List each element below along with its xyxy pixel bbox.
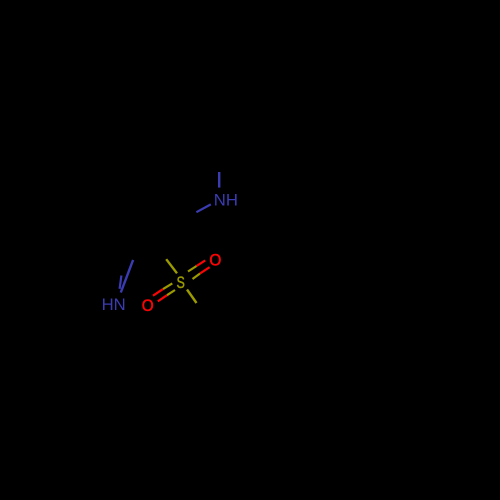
svg-text:O: O	[209, 251, 221, 270]
wire: S=O upper-right double bond line A red half	[197, 260, 206, 266]
wire: bond S-CH3 lower-right olive	[187, 290, 197, 304]
wire: S=O upper-right double bond line A olive half	[188, 266, 197, 272]
svg-text:NH: NH	[214, 191, 238, 210]
wire: imine second bond line	[120, 276, 122, 289]
wire: S=O upper-right double bond line B olive half	[193, 274, 201, 280]
wire: S=O lower-left double bond line A red half	[153, 289, 163, 296]
wire: bond C-S upper-left olive	[166, 259, 177, 273]
wire: S=O lower-left double bond line B red half	[158, 295, 167, 301]
svg-text:S: S	[177, 275, 185, 293]
svg-text:HN: HN	[102, 295, 126, 314]
wire: S=O lower-left double bond line A olive half	[163, 283, 172, 289]
wire: S=O upper-right double bond line B red half	[200, 267, 210, 273]
svg-text:O: O	[142, 297, 154, 316]
wire: bond NH to CH2 lower-left	[196, 204, 210, 212]
wire: imine main bond N=C	[121, 260, 133, 293]
wire: bond C-N vertical above NH	[218, 172, 220, 188]
wire: S=O lower-left double bond line B olive half	[167, 290, 175, 295]
